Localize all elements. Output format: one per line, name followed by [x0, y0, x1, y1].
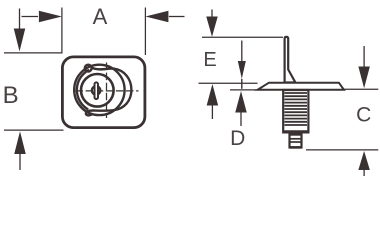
svg-text:B: B	[3, 82, 19, 109]
svg-text:A: A	[93, 4, 108, 29]
svg-text:E: E	[203, 49, 216, 71]
svg-text:C: C	[356, 103, 371, 126]
svg-text:D: D	[230, 127, 245, 150]
